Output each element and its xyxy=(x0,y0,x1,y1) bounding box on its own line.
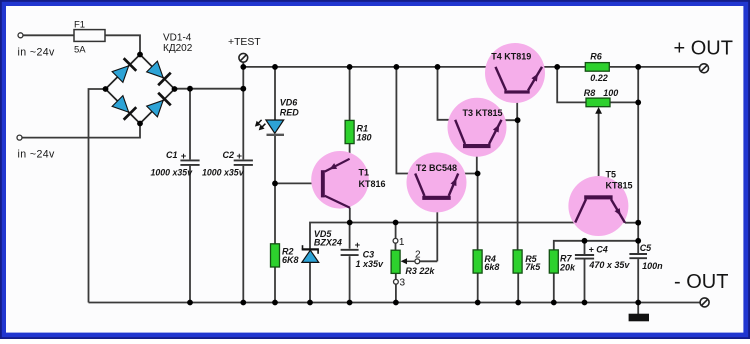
resistor R2 xyxy=(271,244,280,267)
capacitor C4 xyxy=(575,254,594,256)
svg-text:F1: F1 xyxy=(74,20,85,31)
node bridge right xyxy=(172,86,178,92)
potentiometer R3 xyxy=(391,250,400,273)
transistor T2 BC548 xyxy=(407,152,467,212)
svg-text:R6: R6 xyxy=(590,51,602,61)
diode VD3 (left-bottom arm) xyxy=(112,96,129,113)
wire bridge left node to bottom bus xyxy=(89,89,106,303)
wire T5 emitter to right vertical xyxy=(625,222,638,224)
junction dot R8 right xyxy=(635,100,641,106)
svg-text:T5: T5 xyxy=(606,169,617,179)
wire T3 collector xyxy=(438,67,456,120)
junction dots top bus xyxy=(240,64,246,70)
svg-text:R3 22k: R3 22k xyxy=(405,266,435,276)
svg-text:+TEST: +TEST xyxy=(228,37,261,48)
junction dots R7/C4/C5 bus xyxy=(582,238,588,244)
transistor T1 KT816 xyxy=(311,151,369,209)
wire R3 branch xyxy=(395,223,397,239)
input terminal 2 xyxy=(17,135,22,140)
wire C4 branch xyxy=(584,241,586,254)
junction dot T2 emitter/T3 base xyxy=(475,171,481,177)
-OUT terminal xyxy=(700,298,709,307)
node bridge left xyxy=(103,86,109,92)
wire test terminal / C2 vertical xyxy=(242,62,244,159)
resistor R1 xyxy=(345,120,354,143)
wire R8 right xyxy=(609,101,638,103)
wire T1 base xyxy=(275,182,321,184)
svg-text:C3: C3 xyxy=(363,250,375,260)
svg-text:+ C4: + C4 xyxy=(589,245,608,255)
wire input1 to fuse xyxy=(23,34,74,36)
wire top bus xyxy=(243,66,495,68)
bridge rectifier VD1-4 xyxy=(106,55,141,90)
transistor T5 KT815 xyxy=(568,176,628,236)
svg-text:+ OUT: + OUT xyxy=(674,37,733,59)
svg-text:T3 KT815: T3 KT815 xyxy=(463,108,503,118)
svg-text:5A: 5A xyxy=(74,44,86,55)
svg-text:1000 x35v: 1000 x35v xyxy=(202,168,245,178)
wire T2 collector xyxy=(396,67,415,174)
svg-text:0.22: 0.22 xyxy=(590,73,608,83)
junction dots middle bus xyxy=(347,220,353,226)
svg-text:T4 KT819: T4 KT819 xyxy=(491,52,531,62)
test terminal xyxy=(239,53,248,62)
wire input2 to bridge bottom xyxy=(22,124,140,138)
wire ground stub xyxy=(637,303,639,315)
capacitor C1 xyxy=(180,159,199,161)
node bridge bottom xyxy=(137,121,143,127)
+OUT terminal xyxy=(700,64,709,73)
svg-text:КД202: КД202 xyxy=(163,43,193,54)
svg-text:KT815: KT815 xyxy=(606,180,633,190)
capacitor C2 xyxy=(234,159,253,161)
svg-text:6k8: 6k8 xyxy=(484,262,499,272)
svg-text:100: 100 xyxy=(603,88,618,98)
resistor R4 xyxy=(473,250,482,273)
LED VD6 xyxy=(266,120,284,133)
wire T4 base / R5 vertical xyxy=(516,94,518,121)
wire fuse to bridge top xyxy=(105,35,140,54)
svg-text:T2 BC548: T2 BC548 xyxy=(416,163,457,173)
svg-text:1000 x35v: 1000 x35v xyxy=(151,168,194,178)
wire bottom bus xyxy=(89,302,700,304)
svg-text:in ~24v: in ~24v xyxy=(18,46,56,58)
svg-text:R8: R8 xyxy=(584,88,596,98)
resistor R6 xyxy=(585,63,609,72)
junction dots bottom bus xyxy=(187,300,193,306)
svg-text:T1: T1 xyxy=(359,167,370,177)
LED arrows xyxy=(256,120,261,125)
fuse F1 xyxy=(74,30,105,42)
wire R7 bottom xyxy=(553,273,555,302)
svg-text:2: 2 xyxy=(415,249,421,260)
svg-text:VD6: VD6 xyxy=(280,98,299,108)
junction dot T3 emitter/T4 base xyxy=(515,117,521,123)
resistor R7 xyxy=(549,250,558,273)
diode VD4 (bottom-right arm) xyxy=(147,100,164,117)
wire R3 wiper to T2 base xyxy=(420,260,438,262)
wire right vertical R6 to C5 xyxy=(637,67,639,241)
wire middle bus VD5 to T5 xyxy=(310,223,575,250)
wire C3 branch xyxy=(349,223,351,249)
svg-text:in ~24v: in ~24v xyxy=(18,149,56,161)
transistor T3 KT815 xyxy=(448,98,507,157)
svg-text:+: + xyxy=(181,151,187,162)
wire C1 branch xyxy=(189,89,191,160)
resistor R8 xyxy=(586,98,610,107)
resistor R5 xyxy=(513,250,522,273)
svg-text:470 x 35v: 470 x 35v xyxy=(588,260,630,270)
svg-text:KT816: KT816 xyxy=(359,179,386,189)
svg-text:+: + xyxy=(237,151,243,162)
svg-text:+: + xyxy=(355,240,361,251)
svg-text:1 x35v: 1 x35v xyxy=(356,259,385,269)
svg-text:RED: RED xyxy=(280,108,300,118)
svg-text:180: 180 xyxy=(357,133,372,143)
zener VD5 BZX24 xyxy=(302,250,319,262)
wire T3 base / R4 vertical xyxy=(476,148,478,174)
svg-text:7k5: 7k5 xyxy=(525,262,541,272)
diode VD1 (left-top arm) xyxy=(112,66,129,83)
capacitor C5 xyxy=(629,253,647,255)
ground xyxy=(629,314,649,322)
wire R7 C4 C5 top bus xyxy=(554,241,638,250)
node bridge top xyxy=(137,52,143,58)
svg-text:1: 1 xyxy=(399,237,405,248)
junction dots rectifier out xyxy=(187,86,193,92)
junction dot T1 base xyxy=(272,181,278,187)
wire T4 emitter to +OUT xyxy=(542,66,585,68)
wire R8 left branch xyxy=(557,67,586,103)
wire C5 branch xyxy=(637,241,639,253)
wire T3 emitter to T4 base junction xyxy=(502,119,518,121)
T5 base arrow into R8 xyxy=(595,107,602,114)
wire T2 emitter junction xyxy=(458,173,477,175)
wire VD6 R2 vertical xyxy=(274,67,276,120)
svg-text:C1: C1 xyxy=(166,150,178,160)
svg-text:BZX24: BZX24 xyxy=(314,237,342,247)
svg-text:- OUT: - OUT xyxy=(674,271,728,293)
diode VD2 (top-right arm) xyxy=(147,61,164,78)
svg-text:C5: C5 xyxy=(640,243,652,253)
wire R1 branch xyxy=(349,67,351,121)
capacitor C3 xyxy=(341,249,359,251)
transistor T4 KT819 xyxy=(485,43,545,103)
svg-text:20k: 20k xyxy=(559,262,576,272)
wire T5 base to R8 xyxy=(598,112,600,195)
wire T1 collector down xyxy=(349,208,351,223)
svg-text:100n: 100n xyxy=(642,261,663,271)
input terminal 1 xyxy=(18,33,23,38)
wire VD5 to bottom xyxy=(309,262,311,302)
svg-text:3: 3 xyxy=(400,278,406,289)
wire bridge right node to C2 line xyxy=(175,88,244,90)
svg-text:C2: C2 xyxy=(223,150,235,160)
svg-text:6K8: 6K8 xyxy=(282,255,299,265)
